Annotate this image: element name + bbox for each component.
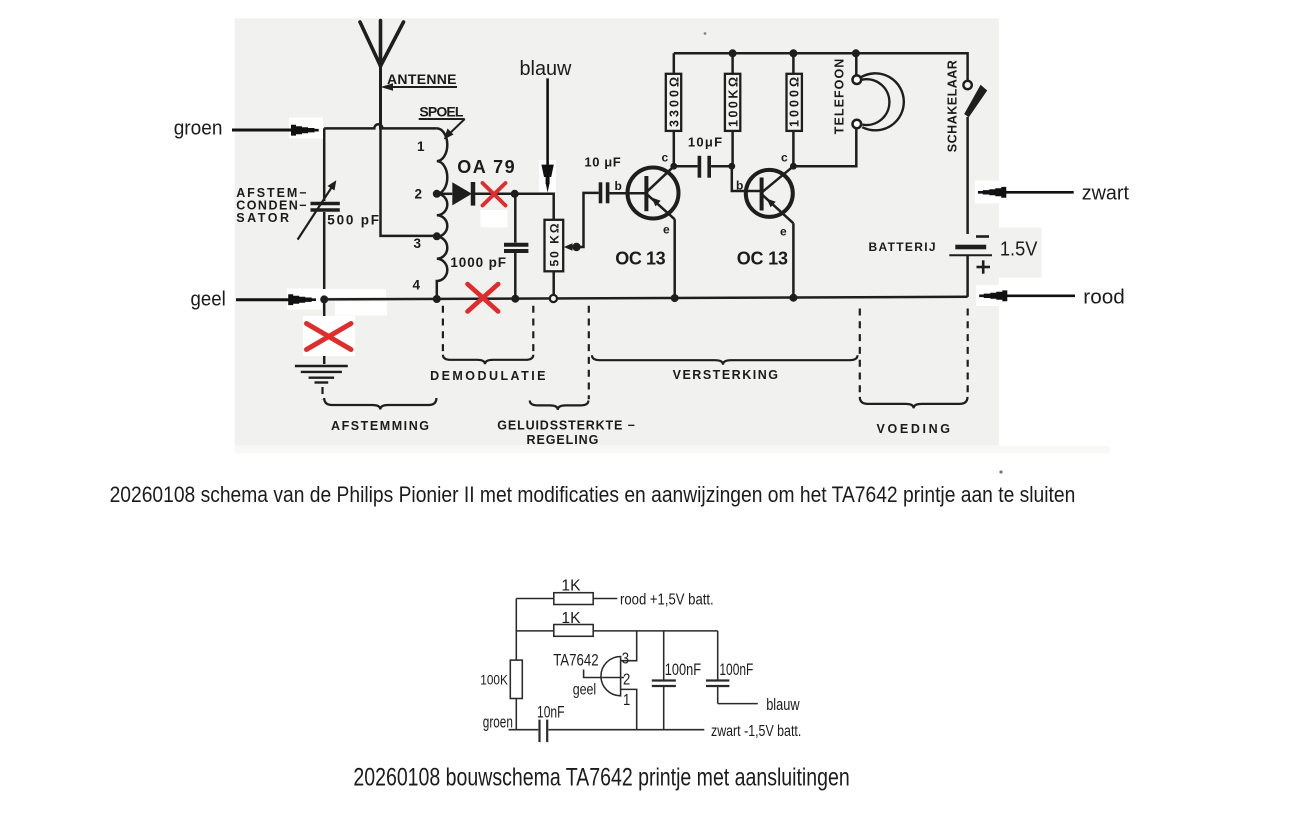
svg-text:1K: 1K xyxy=(561,610,580,627)
svg-text:AFSTEMMING: AFSTEMMING xyxy=(331,419,429,433)
capacitor 10uF (first) xyxy=(599,182,603,203)
variable capacitor C1 500pF xyxy=(298,180,340,239)
svg-text:SPOEL: SPOEL xyxy=(419,104,463,120)
svg-text:blauw: blauw xyxy=(520,58,572,80)
pin 1 wire xyxy=(621,689,637,729)
svg-text:2: 2 xyxy=(415,187,423,202)
scan speckle dot xyxy=(999,470,1002,473)
node Q2 collector xyxy=(790,163,797,170)
red X mod mark 3 (bottom rail) xyxy=(468,284,499,312)
svg-text:groen: groen xyxy=(174,118,223,140)
svg-text:OC 13: OC 13 xyxy=(615,249,666,269)
svg-text:rood: rood xyxy=(1083,287,1125,309)
node 100K top xyxy=(729,49,737,57)
diode OA79 xyxy=(437,193,453,196)
rood annotation xyxy=(976,285,1007,306)
resistor 3300 Ohm xyxy=(673,53,676,74)
svg-text:OC 13: OC 13 xyxy=(737,249,788,269)
brace DEMODULATIE xyxy=(443,355,533,365)
wire diode node to 50K top xyxy=(515,194,554,220)
pin 3 wire xyxy=(621,631,637,661)
svg-text:VERSTERKING: VERSTERKING xyxy=(673,368,778,382)
coil L1 xyxy=(437,128,448,299)
svg-text:2: 2 xyxy=(623,671,630,688)
node coil bottom xyxy=(433,295,441,303)
svg-text:TA7642: TA7642 xyxy=(553,652,598,670)
svg-text:3: 3 xyxy=(622,650,629,667)
capacitor 1000pF xyxy=(514,194,517,243)
svg-text:zwart -1,5V batt.: zwart -1,5V batt. xyxy=(711,723,801,740)
svg-text:20260108 schema van de Philips: 20260108 schema van de Philips Pionier I… xyxy=(110,482,1076,507)
geel wire xyxy=(584,670,603,678)
resistor 100K Ohm xyxy=(731,53,734,74)
svg-text:ANTENNE: ANTENNE xyxy=(387,71,457,87)
svg-text:4: 4 xyxy=(413,278,421,293)
svg-text:1K: 1K xyxy=(561,578,580,595)
svg-text:1.5V: 1.5V xyxy=(1000,239,1038,261)
svg-text:REGELING: REGELING xyxy=(527,433,599,447)
svg-text:b: b xyxy=(736,179,743,193)
svg-text:100nF: 100nF xyxy=(719,661,753,679)
antenna xyxy=(360,21,404,129)
scan background xyxy=(235,18,999,445)
zwart annotation xyxy=(975,181,1007,204)
svg-text:c: c xyxy=(662,151,669,165)
wire Q2 collector to telephone xyxy=(793,128,856,166)
svg-text:SATOR: SATOR xyxy=(236,211,289,225)
white patch under red X1 xyxy=(481,210,508,228)
telephone TELEFOON xyxy=(861,73,904,130)
svg-text:e: e xyxy=(663,223,670,237)
node Q2 base / 100K bottom xyxy=(728,163,735,170)
node diode output xyxy=(511,190,519,198)
ground xyxy=(323,299,326,364)
pin 2 stub xyxy=(602,677,624,679)
transistor Q2 OC13 xyxy=(746,170,793,217)
svg-text:c: c xyxy=(781,151,788,165)
wire blauw xyxy=(718,703,758,705)
wire top (groen row) with hop over mast xyxy=(324,124,437,128)
svg-text:10nF: 10nF xyxy=(537,704,565,722)
node telephone top xyxy=(852,49,860,57)
battery BATTERIJ 1.5V xyxy=(976,235,989,238)
wire left vertical (bottom schematic) xyxy=(515,599,517,661)
resistor 1K (top) xyxy=(554,593,593,605)
node 1000pF bottom xyxy=(511,295,519,303)
potentiometer wiper xyxy=(564,243,573,251)
IC TA7642 outline xyxy=(601,657,621,696)
svg-text:10 μF: 10 μF xyxy=(584,155,620,170)
resistor 1K (second) xyxy=(554,625,593,637)
svg-text:e: e xyxy=(780,225,787,239)
svg-text:BATTERIJ: BATTERIJ xyxy=(869,240,936,254)
node Q1 emitter bottom xyxy=(671,294,679,302)
svg-text:SCHAKELAAR: SCHAKELAAR xyxy=(946,60,960,152)
resistor 100K xyxy=(510,660,522,698)
potentiometer 50 KOhm xyxy=(545,220,564,271)
svg-text:geel: geel xyxy=(191,289,226,311)
node Q2 emitter bottom xyxy=(789,294,797,302)
svg-text:100K: 100K xyxy=(480,672,508,688)
svg-text:rood +1,5V batt.: rood +1,5V batt. xyxy=(620,592,714,609)
svg-text:b: b xyxy=(615,179,622,193)
switch SCHAKELAAR xyxy=(963,81,971,89)
svg-text:20260108 bouwschema TA7642 pri: 20260108 bouwschema TA7642 printje met a… xyxy=(353,764,849,792)
node 1000 Ohm top xyxy=(789,49,797,57)
svg-text:zwart: zwart xyxy=(1082,183,1130,205)
node Q1 collector xyxy=(670,163,677,170)
brace GELUIDSSTERKTE xyxy=(530,401,589,410)
svg-text:100nF: 100nF xyxy=(665,661,701,679)
capacitor 100nF (first) xyxy=(663,631,665,680)
wire bottom rail xyxy=(324,297,967,300)
coil tap 3 node xyxy=(433,232,441,240)
transistor Q1 OC13 xyxy=(628,168,679,219)
blauw annotation xyxy=(539,160,556,192)
resistor 1000 Ohm xyxy=(792,53,795,74)
brace AFSTEMMING xyxy=(324,398,436,410)
capacitor 10nF xyxy=(538,720,540,743)
red X mod mark 2 (ground) xyxy=(307,324,352,350)
dashed separator lines xyxy=(323,306,968,400)
svg-text:OA 79: OA 79 xyxy=(457,157,514,177)
capacitor 10uF (second) xyxy=(674,165,698,168)
antenna mast wire down to coil tap 3 xyxy=(381,128,437,236)
svg-text:3: 3 xyxy=(414,236,422,251)
brace VERSTERKING xyxy=(592,355,858,364)
wire row rood xyxy=(516,598,554,600)
svg-text:1000 pF: 1000 pF xyxy=(450,255,506,270)
svg-text:10μF: 10μF xyxy=(688,135,722,150)
capacitor 100nF (second) xyxy=(717,631,719,680)
svg-text:1: 1 xyxy=(417,139,425,154)
wire zwart rail xyxy=(509,729,539,731)
svg-text:groen: groen xyxy=(483,714,513,732)
svg-text:1: 1 xyxy=(623,692,630,709)
svg-text:blauw: blauw xyxy=(766,696,799,714)
svg-text:GELUIDSSTERKTE −: GELUIDSSTERKTE − xyxy=(497,419,635,433)
brace VOEDING xyxy=(860,397,968,409)
svg-text:TELEFOON: TELEFOON xyxy=(833,59,847,135)
wire row 2 xyxy=(516,630,554,632)
wire Q2 base xyxy=(732,166,762,191)
node 50K bottom (open) xyxy=(550,295,557,302)
coil tap 2 node xyxy=(433,190,441,198)
red X mod mark 1 (diode wire) xyxy=(483,183,506,206)
white patch under red X2 xyxy=(303,316,355,356)
svg-text:geel: geel xyxy=(573,682,597,699)
wire left branch vertical xyxy=(323,128,326,201)
node geel junction xyxy=(320,295,328,303)
wire top supply rail xyxy=(674,53,968,81)
